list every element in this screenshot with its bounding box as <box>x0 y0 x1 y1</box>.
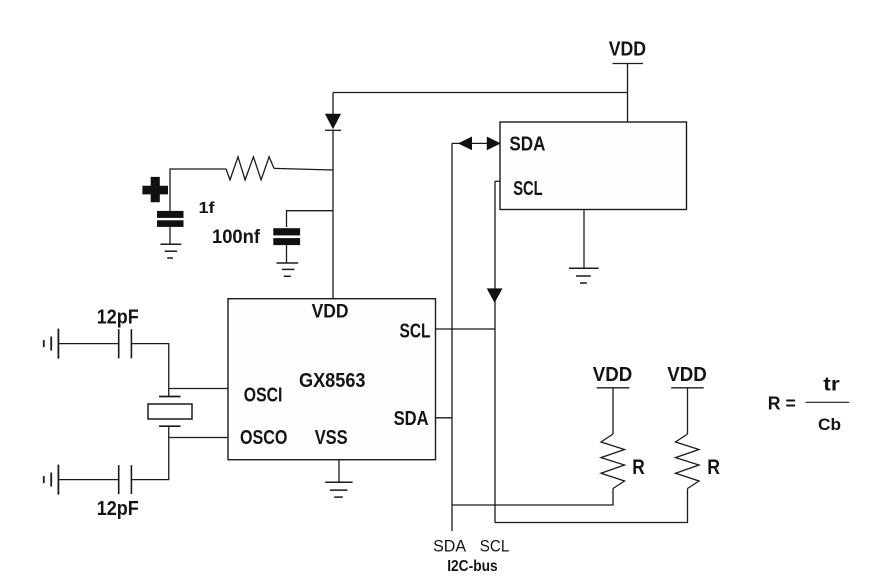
wire battery to resistor <box>170 169 226 211</box>
svg-text:VDD: VDD <box>667 364 707 386</box>
svg-text:100nf: 100nf <box>212 227 261 248</box>
bidirectional arrow SDA-MCU <box>452 137 500 149</box>
svg-text:SCL: SCL <box>513 178 543 200</box>
svg-text:1f: 1f <box>199 200 216 217</box>
wire resistor to VDD node <box>274 168 333 170</box>
capacitor C2 100nf <box>273 228 300 245</box>
svg-text:VDD: VDD <box>609 38 646 60</box>
arrow head SCL into bus <box>487 289 501 302</box>
capacitor C3 12pF <box>119 329 132 358</box>
svg-text:R =: R = <box>768 393 796 413</box>
wire VDD node down to GX8563 VDD pin <box>332 130 334 298</box>
svg-text:12pF: 12pF <box>97 307 139 329</box>
wire ground to C3 <box>58 343 118 345</box>
wire OSCI <box>169 388 228 390</box>
ground MCU <box>569 210 599 283</box>
svg-text:SDA: SDA <box>394 408 429 430</box>
capacitor C4 12pF <box>119 465 132 494</box>
wire top rail from diode node to MCU VDD <box>333 92 628 94</box>
wire OSCO <box>169 437 228 439</box>
svg-text:Cb: Cb <box>818 415 841 434</box>
formula R equals tr over Cb <box>768 374 850 434</box>
svg-text:tr: tr <box>823 374 840 395</box>
svg-text:SCL: SCL <box>400 320 431 342</box>
wire SDA pin to bus <box>436 417 453 419</box>
MCU block U2 <box>500 122 687 210</box>
ground VSS <box>325 460 352 497</box>
wire SCL stub from MCU <box>495 180 500 182</box>
resistor R3 series <box>226 157 274 180</box>
wire SCL pin to bus <box>436 328 496 330</box>
VDD supply symbol R1 <box>597 388 630 434</box>
svg-text:SDA: SDA <box>509 134 545 156</box>
wire crystal to C4 and OSCO <box>131 426 168 479</box>
svg-text:I2C-bus: I2C-bus <box>447 558 498 575</box>
wire SDA bus vertical <box>451 143 453 531</box>
diode D1 <box>325 93 341 131</box>
svg-text:R: R <box>632 456 645 479</box>
wire R2 to SCL bus <box>495 489 688 523</box>
ground battery <box>161 244 182 258</box>
svg-text:SDA: SDA <box>433 536 467 555</box>
wire capacitor C2 branch <box>287 211 334 227</box>
battery BT1 plus marker <box>142 177 168 202</box>
svg-text:VSS: VSS <box>315 427 348 449</box>
VDD supply symbol R2 <box>671 388 704 434</box>
svg-text:SCL: SCL <box>480 536 510 555</box>
svg-text:VDD: VDD <box>593 364 633 386</box>
IC U1 GX8563 <box>228 299 436 460</box>
wire SCL bus vertical <box>494 181 496 522</box>
ground left bottom sideways <box>44 465 59 495</box>
wire C4 to ground <box>58 479 118 481</box>
wire C3 to crystal and OSCI <box>131 344 168 396</box>
ground C2 <box>277 263 299 276</box>
wire C2 to ground <box>286 245 288 263</box>
resistor R1 <box>601 434 625 489</box>
resistor R2 <box>676 434 700 489</box>
svg-text:OSCI: OSCI <box>244 384 283 406</box>
svg-text:VDD: VDD <box>312 301 349 322</box>
svg-text:OSCO: OSCO <box>240 427 287 449</box>
ground left top sideways <box>44 329 59 359</box>
battery BT1 plates 1f <box>157 211 184 227</box>
wire R1 to SDA bus <box>452 489 613 506</box>
svg-text:GX8563: GX8563 <box>299 370 366 392</box>
wire battery to ground <box>169 227 171 244</box>
svg-text:R: R <box>707 456 720 479</box>
svg-text:12pF: 12pF <box>97 498 139 520</box>
crystal X1 <box>148 397 192 427</box>
VDD supply symbol MCU <box>613 64 644 123</box>
